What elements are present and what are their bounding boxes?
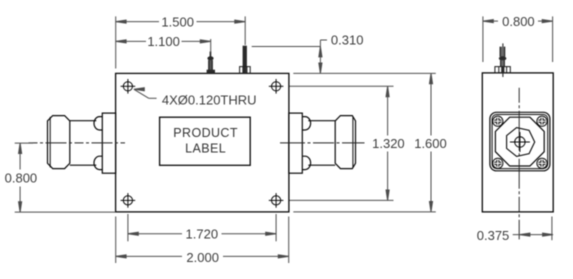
svg-text:1.320: 1.320: [372, 136, 405, 151]
side view body outline: [482, 73, 553, 212]
right connector flange plate: [289, 113, 302, 173]
svg-text:2.000: 2.000: [186, 250, 219, 265]
dimension 2.000: [116, 217, 289, 264]
side view flange outer square: [490, 112, 550, 171]
svg-text:LABEL: LABEL: [185, 141, 226, 155]
side view connector hex nut heptagon: [507, 128, 535, 157]
right connector top tab: [302, 117, 310, 130]
solder pin P2 (right, on top of body): [240, 46, 251, 74]
extension line top (body top, for 0.310 and 1.600): [293, 72, 436, 74]
dimension 1.500: [116, 16, 246, 68]
side view connector octagon body: [495, 117, 544, 166]
svg-text:1.720: 1.720: [186, 227, 219, 242]
side view center contact circle: [510, 132, 530, 152]
side view vertical center line: [518, 88, 520, 240]
left connector flange plate: [102, 113, 115, 173]
extension line body bottom (for 1.600): [293, 211, 436, 213]
svg-text:0.800: 0.800: [502, 14, 535, 29]
left connector hex nut: [48, 116, 70, 169]
mounting hole bottom-left: [121, 193, 136, 208]
dimension 1.720: [128, 214, 276, 241]
svg-text:0.310: 0.310: [331, 33, 364, 48]
side view flange inner square: [492, 115, 548, 169]
right connector bottom tab: [302, 156, 310, 169]
dimension 1.320: [386, 86, 389, 200]
svg-text:1.500: 1.500: [161, 14, 194, 29]
svg-text:1.600: 1.600: [414, 136, 447, 151]
svg-text:0.375: 0.375: [477, 228, 510, 243]
left connector center line: [29, 142, 126, 144]
side view flange screw bottom-left: [493, 158, 503, 168]
extension line hole top (for 1.320): [290, 85, 394, 87]
dimension 0.800 side view: [483, 16, 553, 62]
left connector top tab: [94, 117, 102, 130]
dimension 0.310: [252, 40, 327, 73]
product label text: [173, 126, 238, 155]
side view flange screw top-left: [493, 116, 503, 126]
dimension 0.375: [513, 217, 553, 241]
right connector barrel: [308, 121, 335, 166]
right connector hex nut: [335, 116, 355, 169]
left connector barrel: [70, 121, 97, 166]
extension line hole bottom (for 1.320): [290, 199, 394, 201]
right connector nut facet line: [352, 117, 354, 167]
left connector nut facet line: [49, 117, 51, 167]
svg-text:4XØ0.120THRU: 4XØ0.120THRU: [162, 92, 257, 107]
left connector bottom tab: [94, 156, 102, 169]
hole callout leader 4X 0.120 THRU: [134, 88, 157, 99]
side view flange screw bottom-right: [537, 158, 547, 168]
side view solder pin: [499, 43, 507, 77]
svg-text:PRODUCT: PRODUCT: [173, 126, 238, 140]
svg-text:0.800: 0.800: [5, 171, 38, 186]
product label box: [160, 117, 251, 165]
svg-text:1.100: 1.100: [147, 34, 180, 49]
dimension 1.600: [429, 73, 432, 212]
mounting hole top-left: [121, 79, 136, 94]
right connector center line: [280, 142, 365, 144]
mounting hole top-right: [269, 79, 284, 94]
dimension 1.100: [116, 39, 211, 53]
solder pin P1 (left, on top of body): [207, 52, 215, 74]
side view flange screw top-right: [537, 116, 547, 126]
dimension 0.800 left: [15, 143, 116, 212]
main body outline: [116, 73, 289, 212]
mounting hole bottom-right: [269, 193, 284, 208]
